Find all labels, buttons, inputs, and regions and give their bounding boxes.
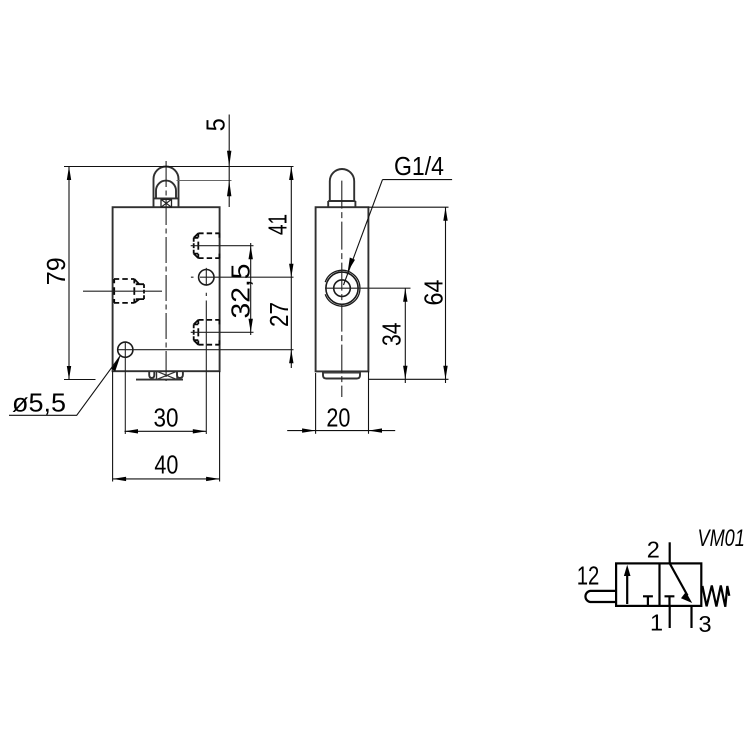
svg-text:27: 27 xyxy=(264,302,294,327)
svg-text:VM01: VM01 xyxy=(698,525,745,552)
svg-text:2: 2 xyxy=(647,537,660,563)
svg-text:30: 30 xyxy=(154,403,179,433)
svg-text:1: 1 xyxy=(650,610,663,636)
svg-text:G1/4: G1/4 xyxy=(394,151,444,181)
svg-text:5: 5 xyxy=(200,118,230,131)
svg-text:40: 40 xyxy=(154,450,178,480)
svg-text:ø5,5: ø5,5 xyxy=(12,388,66,418)
svg-text:41: 41 xyxy=(262,214,292,235)
svg-text:32,5: 32,5 xyxy=(226,264,256,319)
svg-text:79: 79 xyxy=(41,257,71,285)
svg-text:20: 20 xyxy=(326,402,350,432)
svg-text:64: 64 xyxy=(418,280,448,306)
svg-text:12: 12 xyxy=(577,563,600,591)
svg-text:3: 3 xyxy=(698,611,711,637)
svg-text:34: 34 xyxy=(377,323,407,347)
